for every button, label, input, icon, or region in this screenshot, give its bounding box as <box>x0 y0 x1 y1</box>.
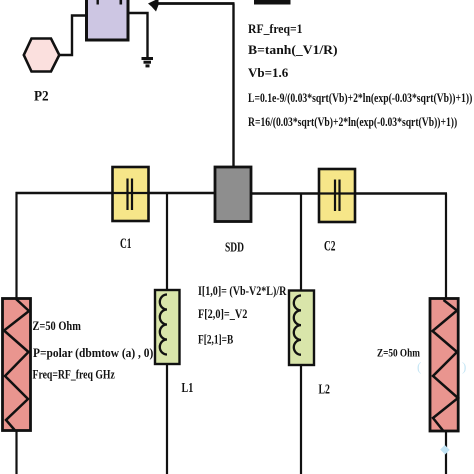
wire SDD top vertical <box>232 4 234 169</box>
svg-text:C1: C1 <box>120 235 132 252</box>
svg-text:Z=50 Ohm: Z=50 Ohm <box>377 346 420 359</box>
capacitor C2 plates <box>335 180 340 212</box>
label L1 <box>182 379 194 395</box>
wire left term lower <box>15 430 17 474</box>
wire branch L1 upper <box>166 193 168 296</box>
svg-text:L2: L2 <box>319 381 330 397</box>
label L2 <box>319 381 330 397</box>
wire main horizontal left <box>16 192 217 194</box>
label P2 <box>34 88 49 105</box>
VAR value label B=tanh(_V1/R) <box>248 42 338 57</box>
svg-text:P=polar (dbmtow (a) , 0): P=polar (dbmtow (a) , 0) <box>33 345 153 360</box>
capacitor C1 plates <box>128 179 133 211</box>
capacitor C2 box <box>319 169 355 222</box>
svg-text:L1: L1 <box>182 379 194 395</box>
label C2 <box>324 237 336 254</box>
wire branch L2 lower <box>300 355 302 474</box>
wire arrow horizontal top <box>152 2 235 5</box>
VAR value label R equation <box>248 116 457 130</box>
ground <box>142 57 154 67</box>
svg-text:C2: C2 <box>324 237 336 254</box>
right term value label Z=50 Ohm <box>377 346 420 359</box>
svg-text:L=0.1e-9/(0.03*sqrt(Vb)+2*ln(e: L=0.1e-9/(0.03*sqrt(Vb)+2*ln(exp(-0.03*s… <box>248 92 472 106</box>
wire P2 to source box <box>58 16 87 56</box>
svg-text:Vb=1.6: Vb=1.6 <box>248 65 289 80</box>
left term value label Z=50 Ohm <box>33 319 82 333</box>
VAR value label L equation <box>248 92 472 106</box>
wire main horizontal right <box>250 192 447 194</box>
wire left term upper <box>15 192 17 300</box>
svg-text:I[1,0]= (Vb-V2*L)/R: I[1,0]= (Vb-V2*L)/R <box>198 284 287 299</box>
SDD value label F[2,0]=_V2 <box>198 307 248 321</box>
svg-text:F[2,0]=_V2: F[2,0]=_V2 <box>198 307 248 321</box>
svg-text:R=16/(0.03*sqrt(Vb)+2*ln(exp(-: R=16/(0.03*sqrt(Vb)+2*ln(exp(-0.03*sqrt(… <box>248 116 457 130</box>
inductor L1 coil <box>160 295 167 355</box>
VAR value label Vb=1.6 <box>248 65 289 80</box>
wire right term upper <box>445 194 447 301</box>
selection mark below resistor <box>440 445 450 455</box>
svg-text:(: ( <box>417 359 421 374</box>
svg-text:B=tanh(_V1/R): B=tanh(_V1/R) <box>248 42 338 57</box>
resistor term right zigzag <box>433 300 459 431</box>
pin label 2 <box>120 0 123 5</box>
label SDD <box>225 239 244 255</box>
VAR symbol black bar (cut off at top) <box>254 0 291 5</box>
SDD value label F[2,1]=B <box>198 333 234 347</box>
wire source box to ground <box>129 13 148 57</box>
svg-text:P2: P2 <box>34 88 49 105</box>
svg-text:): ) <box>462 359 466 374</box>
left term value label Freq=RF_freq GHz <box>33 368 115 382</box>
svg-text:SDD: SDD <box>225 239 244 255</box>
selection mark left chevron <box>417 359 421 374</box>
selection mark right chevron <box>462 359 466 374</box>
arrow head (points left) <box>148 0 159 12</box>
wire right term lower <box>445 430 447 474</box>
resistor term right box <box>430 299 458 432</box>
pin label 1 <box>97 0 99 5</box>
VAR value label RF_freq=1 <box>248 21 303 36</box>
port P2 hexagon <box>24 39 60 72</box>
SDD value label I[1,0]=(Vb-V2*L)/R <box>198 284 287 299</box>
inductor L1 box <box>155 290 180 364</box>
resistor term left box <box>3 299 31 431</box>
svg-text:Z=50 Ohm: Z=50 Ohm <box>33 319 82 333</box>
source component SRC1 box (cut off at top) <box>87 0 129 40</box>
capacitor C1 wire through <box>112 192 148 194</box>
inductor L2 box <box>289 291 314 366</box>
left term value label P=polar(dbmtow(a),0) <box>33 345 153 360</box>
inductor L2 coil <box>294 296 301 355</box>
svg-text:Freq=RF_freq GHz: Freq=RF_freq GHz <box>33 368 115 382</box>
wire branch L2 upper <box>300 194 302 298</box>
svg-text:RF_freq=1: RF_freq=1 <box>248 21 303 36</box>
resistor term left zigzag <box>4 299 29 431</box>
svg-text:F[2,1]=B: F[2,1]=B <box>198 333 234 347</box>
wire branch L1 lower <box>166 354 168 474</box>
capacitor C1 box <box>113 167 149 221</box>
SDD block SDD1 box <box>215 167 251 222</box>
label C1 <box>120 235 132 252</box>
capacitor C2 wire through <box>319 192 355 194</box>
